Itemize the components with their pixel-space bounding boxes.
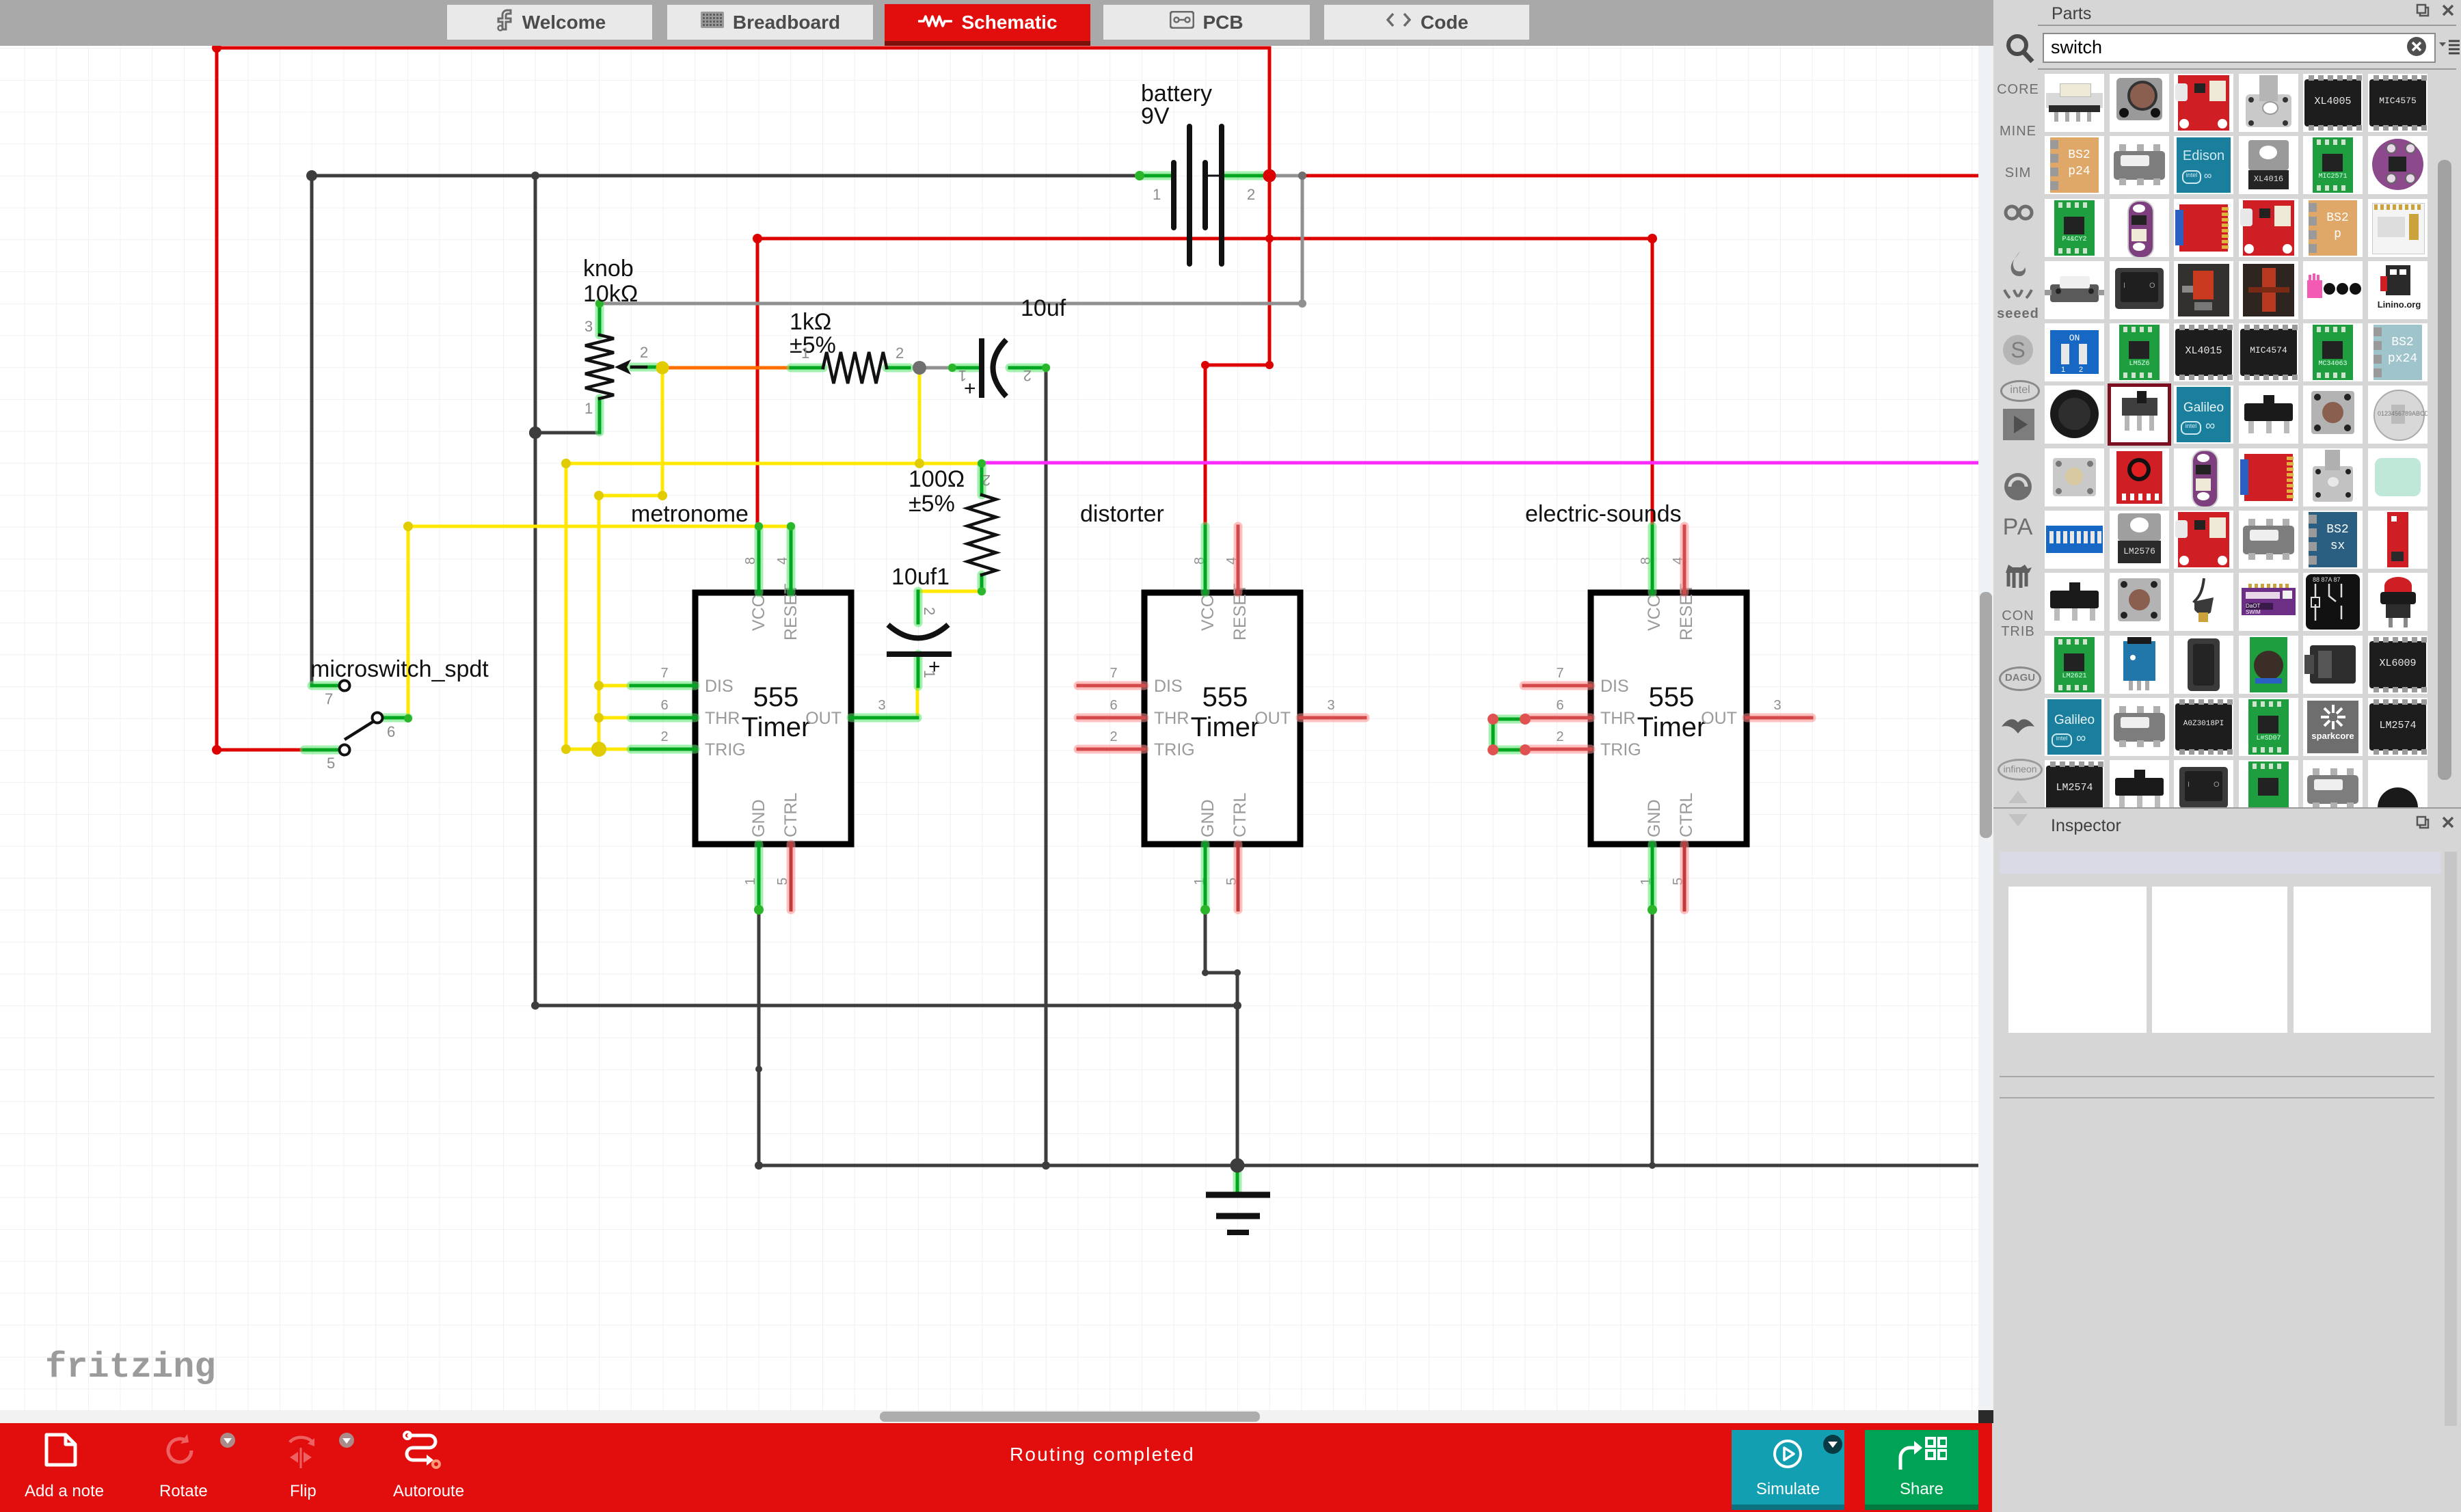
wire yellow wiper vertical (661, 368, 664, 496)
resistor R1 1k (790, 309, 926, 383)
svg-text:fritzing: fritzing (45, 1347, 216, 1388)
svg-text:2: 2 (896, 345, 904, 362)
wire dark vertical knob column (534, 176, 537, 1005)
svg-text:88 87A 87: 88 87A 87 (2313, 576, 2341, 583)
svg-text:VCC: VCC (1198, 595, 1218, 631)
wire red battery+ to right edge (1302, 174, 1978, 178)
wire yellow vertical x876 (597, 496, 601, 749)
svg-text:CTRL: CTRL (781, 793, 801, 837)
wire magenta bus (982, 461, 1978, 465)
node yellow wiper (656, 362, 669, 375)
svg-text:CTRL: CTRL (1677, 793, 1696, 837)
wire red jog to distorter VCC (1205, 365, 1269, 526)
wire orange wiper to 1k (662, 366, 791, 370)
wire gray 1k to cap (919, 366, 952, 370)
op-amp U-electric-sounds 555 box (1591, 593, 1747, 844)
wire dark battery- horizontal (312, 174, 1140, 178)
wire endpoint glows (404, 714, 412, 723)
wire dark ground bus (759, 1164, 1978, 1167)
svg-text:5: 5 (327, 755, 335, 772)
op-amp U-distorter 555 box (1144, 593, 1300, 844)
wire yellow 100R to cap10uf1 (918, 590, 982, 593)
metronome CTRL pin stub (787, 844, 796, 910)
svg-text:2: 2 (982, 472, 991, 489)
node overlay wiper (656, 362, 669, 375)
svg-text:6: 6 (1556, 698, 1563, 713)
svg-text:TRIG: TRIG (705, 740, 746, 759)
wire yellow vertical x828 (565, 463, 568, 749)
svg-text:microswitch_spdt: microswitch_spdt (310, 656, 489, 682)
node overlay TRIG (591, 742, 606, 757)
svg-text:9V: 9V (1141, 103, 1170, 129)
wire VCC red vertical left (215, 48, 219, 750)
svg-text:THR: THR (1600, 709, 1635, 728)
svg-text:3: 3 (584, 318, 593, 335)
svg-text:1: 1 (801, 345, 809, 362)
wire red to electric VCC (1651, 239, 1654, 526)
wire yellow bus y678 (566, 462, 982, 465)
svg-text:555: 555 (1202, 682, 1248, 712)
node dark T (531, 172, 539, 180)
svg-text:2: 2 (1023, 367, 1032, 384)
svg-text:±5%: ±5% (909, 491, 955, 517)
node dark ground big (1230, 1159, 1245, 1173)
svg-text:OUT: OUT (1701, 709, 1737, 728)
capacitor C1 10uf (948, 295, 1066, 400)
wire red to microswitch pin5 (217, 748, 304, 752)
wire yellow cap junction vertical (918, 368, 922, 463)
node gray battery (1298, 172, 1306, 180)
wire gray battery to knob pin3 (1269, 174, 1302, 178)
wire green THR-TRIG tie (1493, 715, 1525, 724)
svg-text:knob: knob (583, 256, 634, 282)
svg-text:CTRL: CTRL (1230, 793, 1250, 837)
electric-sounds pins (1648, 526, 1657, 593)
wire red vertical battery column (1268, 48, 1272, 365)
svg-text:distorter: distorter (1080, 501, 1164, 527)
svg-text:3: 3 (1327, 698, 1334, 713)
wire VCC red top horizontal (217, 46, 1269, 50)
svg-text:OUT: OUT (805, 709, 842, 728)
svg-text:6: 6 (660, 698, 668, 713)
svg-text:7: 7 (660, 666, 668, 681)
wire red rail y350 (757, 237, 1652, 241)
svg-text:6: 6 (1110, 698, 1117, 713)
svg-text:Timer: Timer (742, 712, 811, 742)
svg-text:100Ω: 100Ω (909, 466, 965, 492)
node yellow dots (561, 459, 571, 468)
svg-text:555: 555 (753, 682, 799, 712)
node red jog corners (1265, 361, 1274, 369)
svg-text:metronome: metronome (631, 501, 749, 527)
wire yellow microswitch6 vertical (407, 526, 410, 718)
potentiometer knob 10k (583, 256, 656, 432)
resistor R2 100R (909, 459, 996, 595)
svg-text:1: 1 (584, 400, 593, 417)
svg-text:7: 7 (1110, 666, 1117, 681)
ground symbol (1206, 1165, 1270, 1232)
svg-text:10uf: 10uf (1021, 295, 1066, 321)
svg-text:3: 3 (1773, 698, 1781, 713)
svg-text:1: 1 (921, 670, 938, 678)
svg-text:7: 7 (1556, 666, 1563, 681)
svg-text:6: 6 (387, 723, 395, 740)
svg-text:2: 2 (1247, 186, 1255, 203)
wire yellow to DIS (599, 684, 631, 688)
wire dark bottom horizontal (535, 1004, 1237, 1008)
svg-text:electric-sounds: electric-sounds (1525, 501, 1682, 527)
svg-text:THR: THR (1154, 709, 1189, 728)
wire dark electric GND down (1651, 910, 1654, 1165)
svg-text:2: 2 (1110, 729, 1117, 744)
metronome pins (755, 526, 764, 593)
svg-text:VCC: VCC (1645, 595, 1664, 631)
node red rail crossing (1265, 234, 1274, 243)
node red battery junction (1263, 170, 1276, 183)
node red microswitch corner (212, 745, 221, 755)
distorter pins (1201, 526, 1210, 593)
node yellow TRIG big (591, 742, 606, 757)
svg-text:TRIG: TRIG (1154, 740, 1195, 759)
svg-text:TRIG: TRIG (1600, 740, 1641, 759)
wire dark distorter GND path (1205, 910, 1237, 1165)
node gray corner (1298, 299, 1306, 308)
wire yellow to TRIG (566, 748, 631, 751)
wire red to metronome VCC (756, 239, 759, 526)
svg-text:DIS: DIS (1154, 677, 1183, 696)
svg-text:1: 1 (958, 367, 967, 384)
svg-text:VCC: VCC (749, 595, 768, 631)
node overlay knob junction (529, 427, 541, 439)
svg-text:±5%: ±5% (790, 332, 836, 358)
svg-text:GND: GND (1198, 799, 1218, 837)
svg-text:2: 2 (640, 344, 648, 361)
battery BAT1 9V (1135, 81, 1263, 264)
svg-text:10uf1: 10uf1 (891, 564, 950, 590)
node red metronome VCC corner (753, 234, 762, 243)
svg-text:THR: THR (705, 709, 740, 728)
op-amp U-metronome 555 box (695, 593, 851, 844)
svg-text:555: 555 (1649, 682, 1695, 712)
node red corner top-left (212, 43, 221, 53)
node overlay battery junction (1263, 170, 1276, 183)
svg-text:1: 1 (1153, 186, 1161, 203)
svg-text:GND: GND (1645, 799, 1664, 837)
svg-text:OUT: OUT (1254, 709, 1291, 728)
svg-text:2: 2 (1556, 729, 1563, 744)
wire yellow OUT jog (916, 686, 919, 718)
node red electric VCC corner (1648, 234, 1657, 243)
svg-text:7: 7 (325, 690, 333, 707)
svg-text:2: 2 (921, 607, 938, 615)
svg-text:GND: GND (749, 799, 768, 837)
capacitor C2 10uf1 (887, 564, 952, 686)
node overlay ground (1230, 1159, 1245, 1173)
wire dark cap2 vertical (1045, 368, 1048, 1165)
svg-text:Timer: Timer (1191, 712, 1260, 742)
node overlay gray (1298, 172, 1306, 180)
wire yellow jog wiper (599, 494, 662, 498)
svg-text:DIS: DIS (1600, 677, 1629, 696)
microswitch SW1 spdt (304, 656, 489, 772)
wire dark left vertical to microswitch pin7 (310, 176, 314, 686)
node dark corner (306, 170, 317, 181)
svg-text:Timer: Timer (1637, 712, 1706, 742)
svg-text:10kΩ: 10kΩ (583, 281, 638, 307)
node dark knob junction (529, 427, 541, 439)
wire yellow bus y770 to RESET (408, 525, 791, 528)
svg-text:3: 3 (878, 698, 885, 713)
wire dark to knob pin1 (535, 431, 600, 435)
svg-text:DIS: DIS (705, 677, 734, 696)
svg-text:2: 2 (660, 729, 668, 744)
wire yellow to THR (599, 716, 631, 720)
wire dark metronome GND down (757, 910, 761, 1165)
svg-text:1kΩ: 1kΩ (790, 309, 831, 335)
